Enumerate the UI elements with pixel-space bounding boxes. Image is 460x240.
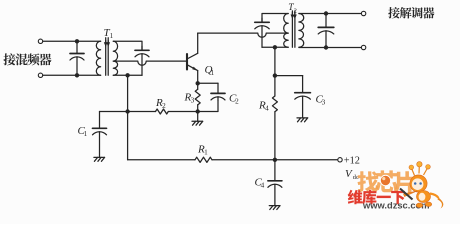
ground at C3 <box>297 117 308 119</box>
ground at C1 <box>94 156 105 158</box>
wire left vertical <box>127 75 129 160</box>
resistor R3 <box>197 83 199 89</box>
capacitor C4 <box>274 160 276 181</box>
wire tap to base with hop over cap <box>113 61 186 65</box>
node mid rail left vertical <box>125 109 129 113</box>
svg-text:4: 4 <box>261 182 265 190</box>
capacitor T1 tuning (variable) <box>141 46 143 50</box>
node emitter <box>196 81 200 85</box>
terminal +12 <box>338 158 342 162</box>
svg-text:2: 2 <box>294 7 297 14</box>
wire Q1 emitter <box>197 71 199 84</box>
resistor R2 <box>156 109 169 114</box>
transformer T1 core <box>105 41 107 76</box>
wire T2 primary bottom to R4 <box>274 47 276 75</box>
wire mid rail right <box>168 111 197 113</box>
wire R1 rail left <box>128 159 195 161</box>
wire input bottom <box>43 74 101 76</box>
input terminal bottom <box>38 73 42 77</box>
svg-text:3: 3 <box>322 99 326 107</box>
wire T2 primary bottom rail <box>262 46 288 48</box>
node R3 bottom <box>196 109 200 113</box>
wire collector run to T2 with hop <box>198 33 289 37</box>
svg-text:3: 3 <box>191 97 195 105</box>
transformer T2 tuning arrows <box>291 11 293 16</box>
watermark 找芯片 orange logo text <box>357 171 378 192</box>
node T1 bottom <box>125 73 129 77</box>
wire Q1 collector <box>197 33 199 53</box>
node R4/C4 on +12 rail <box>273 158 277 162</box>
wire T2 secondary bottom rail <box>299 47 362 49</box>
svg-text:+12: +12 <box>344 155 360 166</box>
mascot eyes <box>414 182 417 185</box>
svg-text:1: 1 <box>110 32 114 40</box>
ground at R3/C2 node <box>197 112 199 122</box>
capacitor C3 <box>275 75 303 77</box>
node secondary cap top <box>324 11 328 15</box>
capacitor C2 <box>198 82 218 84</box>
ground at C4 <box>269 205 280 207</box>
transistor Q1 <box>186 54 188 70</box>
wire R1 rail right <box>212 159 338 161</box>
output terminal bottom <box>361 45 365 49</box>
wire input top <box>43 40 101 42</box>
capacitor across T2 secondary <box>325 14 327 28</box>
wire T2 secondary top rail <box>299 13 362 15</box>
transformer T1 secondary winding <box>113 41 117 75</box>
capacitor T2 tuning (variable) <box>261 18 263 22</box>
svg-text:1: 1 <box>84 130 88 138</box>
wire T1 secondary top rail <box>113 41 142 50</box>
wire T2 primary top rail <box>262 14 288 23</box>
svg-text:1: 1 <box>211 69 215 77</box>
node input cap bottom <box>75 73 79 77</box>
transformer T2 secondary winding <box>299 14 304 48</box>
transformer T2 primary winding <box>284 14 289 48</box>
input terminal top <box>38 39 42 43</box>
watermark mascot <box>400 162 443 209</box>
transformer T1 tuning arrows <box>105 38 107 44</box>
resistor R4 <box>274 76 276 96</box>
wire T1 bottom rail <box>113 74 142 76</box>
node T2 primary bottom <box>273 45 277 49</box>
watermark 芯 center ball <box>380 175 390 185</box>
node secondary cap bottom <box>324 45 328 49</box>
label 接解调器 (to demodulator) <box>388 7 400 18</box>
node C3 branch <box>273 73 277 77</box>
resistor R1 <box>195 157 212 162</box>
transformer T2 core <box>291 13 293 48</box>
svg-text:1: 1 <box>204 149 208 157</box>
watermark 维库一下 red text <box>348 190 363 205</box>
label 接混频器 (to mixer) <box>3 53 15 65</box>
transformer T1 primary winding <box>96 41 100 75</box>
capacitor C1 <box>99 112 101 129</box>
svg-text:2: 2 <box>235 98 239 106</box>
svg-text:4: 4 <box>265 105 269 113</box>
node input cap top <box>75 39 79 43</box>
capacitor input tuning <box>76 41 78 53</box>
svg-text:2: 2 <box>162 102 166 110</box>
wire mid rail <box>100 111 156 113</box>
output terminal top <box>361 11 365 15</box>
